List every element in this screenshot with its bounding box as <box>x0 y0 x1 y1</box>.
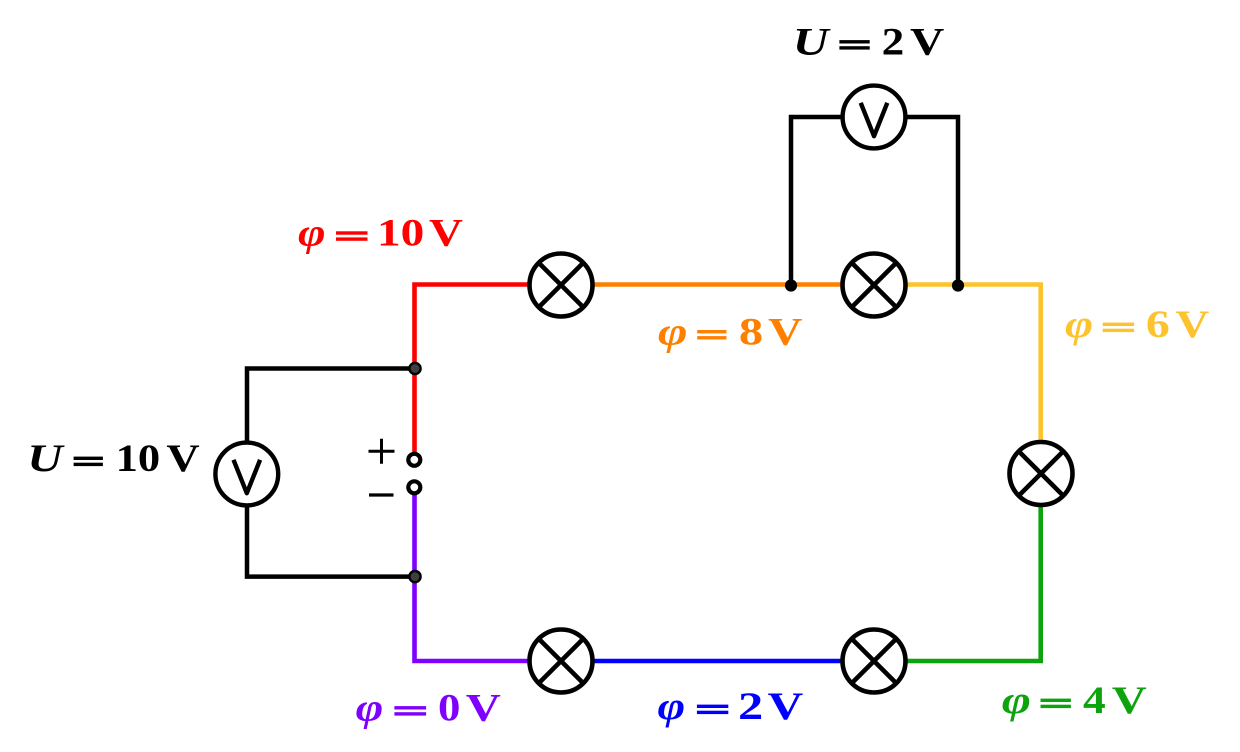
node junction dot (gray) upper tap on red wire <box>409 363 420 374</box>
svg-text:10: 10 <box>116 436 161 480</box>
potential label phi = 6 V (yellow net) <box>1065 302 1210 346</box>
lamp L4 (bottom middle) <box>843 630 906 693</box>
svg-text:V: V <box>1176 302 1210 346</box>
plus sign at + terminal <box>369 439 395 464</box>
svg-text:2: 2 <box>738 684 763 728</box>
voltmeter U2 circle (top, U=2V) <box>843 86 906 149</box>
svg-text:φ: φ <box>658 309 688 353</box>
svg-text:V: V <box>466 686 502 730</box>
node junction dot (black) right tap of top voltmeter <box>952 279 964 291</box>
svg-text:0: 0 <box>438 686 460 730</box>
svg-text:φ: φ <box>658 684 686 728</box>
svg-text:V: V <box>768 684 804 728</box>
voltmeter U1 V pointer <box>234 460 261 493</box>
wire black loop to top voltmeter <box>791 117 958 286</box>
wire green segment (phi=4V): lamp L3 down, corner, left to lamp L4 <box>874 474 1041 662</box>
lamp L1 (top left) <box>530 254 593 317</box>
source - terminal (open circle) <box>408 481 420 493</box>
svg-text:φ: φ <box>1065 302 1093 346</box>
wire black loop to left voltmeter <box>247 369 415 577</box>
svg-text:6: 6 <box>1146 302 1170 346</box>
svg-text:φ: φ <box>298 211 326 255</box>
potential label phi = 10 V (red net) <box>298 211 464 255</box>
minus sign at - terminal <box>369 493 394 496</box>
svg-text:V: V <box>910 20 945 64</box>
voltage label U = 10 V (left voltmeter) <box>27 436 200 480</box>
potential label phi = 8 V (orange net) <box>658 309 803 353</box>
source + terminal (open circle) <box>408 454 420 466</box>
svg-text:V: V <box>1112 678 1147 722</box>
svg-text:8: 8 <box>739 309 763 353</box>
wire yellow segment (phi=6V): lamp L2 right, corner, down to lamp L3 <box>874 285 1041 474</box>
voltage label U = 2 V (top voltmeter) <box>793 20 945 64</box>
svg-text:V: V <box>166 436 200 480</box>
wire orange segment (phi=8V): lamp L1 to lamp L2 <box>561 282 874 287</box>
lamp L2 (top middle) <box>843 254 906 317</box>
svg-text:U: U <box>793 20 832 64</box>
voltmeter U1 circle (left, U=10V) <box>215 443 278 506</box>
svg-text:V: V <box>429 211 464 255</box>
svg-text:U: U <box>27 436 65 480</box>
wire blue segment (phi=2V): lamp L4 to lamp L5 <box>561 659 874 664</box>
node junction dot (black) left tap of top voltmeter <box>785 279 797 291</box>
potential label phi = 4 V (green net) <box>1002 678 1147 722</box>
svg-text:2: 2 <box>882 20 905 64</box>
lamp L3 (right) <box>1010 442 1073 505</box>
svg-text:4: 4 <box>1083 678 1106 722</box>
wire violet segment (phi=0V): lamp L5 left, corner, up to - terminal <box>415 495 562 661</box>
lamp L5 (bottom left) <box>530 630 593 693</box>
svg-text:φ: φ <box>356 686 384 730</box>
svg-text:V: V <box>768 309 803 353</box>
potential label phi = 0 V (violet net) <box>356 686 502 730</box>
voltmeter U2 V pointer <box>861 103 888 136</box>
node junction dot (gray) lower tap on violet wire <box>409 571 420 582</box>
wire red segment (phi=10V): from + terminal up and right to lamp L1 <box>415 285 562 453</box>
svg-text:φ: φ <box>1002 678 1031 722</box>
svg-text:10: 10 <box>377 211 424 255</box>
potential label phi = 2 V (blue net) <box>658 684 804 728</box>
